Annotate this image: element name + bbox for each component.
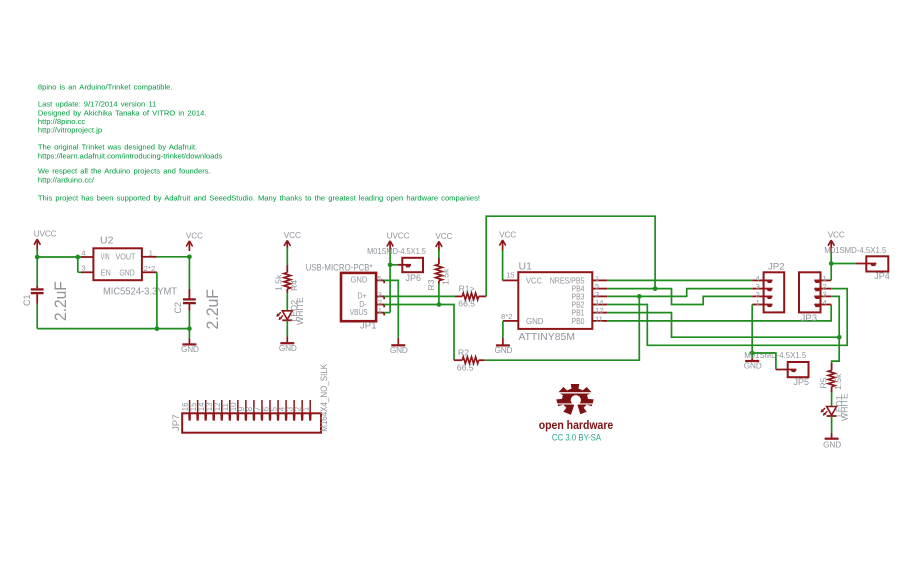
node PB4 junction (653, 286, 658, 291)
M01SMD-4.5X1.5 label (JP5) (744, 350, 806, 360)
VCC symbol above R4 (284, 231, 301, 249)
wire VCC to U1 pin 15 (502, 250, 504, 280)
svg-text:UVCC: UVCC (34, 230, 57, 239)
connector JP4 body (866, 256, 888, 271)
connector JP6 body (402, 258, 423, 272)
U2 pin name VOUT (116, 253, 136, 262)
U1 pin name PB3 (572, 291, 585, 301)
U1 pin name PB4 (572, 284, 585, 294)
svg-text:Last update: 9/17/2014 version: Last update: 9/17/2014 version 11 (38, 100, 156, 109)
svg-text:U1: U1 (519, 260, 533, 272)
wire PB0 to JP3 pin 4 (607, 305, 831, 321)
C2 label (173, 302, 183, 314)
node U2 GND rail junction (155, 326, 160, 331)
svg-text:R2: R2 (458, 347, 469, 357)
wire VCC to R3 (438, 250, 440, 265)
svg-text:GND: GND (181, 345, 199, 354)
svg-text:C1: C1 (22, 294, 32, 306)
capacitor C2 wire top (188, 257, 190, 299)
R3 value 1.5k (441, 268, 451, 285)
U2 pin 2 stub (142, 264, 157, 273)
svg-text:VCC: VCC (284, 231, 301, 240)
wire JP6 to UVCC (390, 264, 398, 266)
JP4 label (874, 271, 890, 281)
svg-text:2*2: 2*2 (144, 264, 155, 273)
U1 pin 8*2 stub (501, 312, 518, 321)
capacitor C1 (31, 289, 44, 293)
svg-text:open hardware: open hardware (539, 420, 614, 432)
svg-text:M164X4_NO_SILK: M164X4_NO_SILK (318, 363, 329, 432)
svg-text:2.2uF: 2.2uF (204, 289, 222, 330)
svg-text:GND: GND (279, 344, 297, 353)
R2 label (458, 347, 469, 357)
JP2 pins 4/3/2/1 (752, 274, 772, 307)
connector JP3 body (799, 272, 821, 312)
svg-text:JP7: JP7 (171, 414, 182, 431)
svg-text:8*2: 8*2 (501, 312, 512, 321)
R2 value 66.5 (457, 363, 474, 373)
svg-text:JP3: JP3 (801, 313, 818, 324)
ground under JP1 (390, 338, 408, 355)
wire PB3 to JP2 pin 3 (607, 289, 752, 297)
wire VCC node down (188, 255, 190, 257)
svg-text:http://8pino.cc: http://8pino.cc (38, 117, 85, 126)
node GND/JP5 junction (750, 351, 755, 356)
wire VCC down to JP3 pin 1 (830, 252, 832, 281)
ground at JP2 pin1 (744, 361, 762, 371)
JP7 label (171, 414, 182, 431)
svg-text:WHITE: WHITE (839, 393, 849, 421)
resistor R4 (284, 273, 291, 289)
svg-text:1: 1 (756, 298, 760, 307)
svg-text:This project has been supporte: This project has been supported by Adafr… (38, 193, 480, 202)
JP2 label (768, 262, 785, 273)
svg-text:GND: GND (526, 316, 543, 326)
wire U1 GND down (502, 321, 504, 338)
C1 value 2.2uF (52, 281, 70, 321)
wire VCC to R4 (286, 248, 288, 273)
svg-text:4: 4 (81, 248, 85, 257)
U1 pin 15 stub (503, 271, 519, 281)
wire PB1 node down to R5 (832, 337, 840, 363)
svg-text:VOUT: VOUT (116, 253, 136, 262)
wire JP1 GND (384, 280, 398, 337)
JP1 pin name GND (351, 275, 368, 285)
JP4 pin (856, 264, 876, 267)
R4 label (289, 280, 299, 291)
svg-text:GND: GND (823, 441, 841, 450)
JP3 label (801, 313, 818, 324)
resistor R2 leads (454, 359, 485, 361)
node PB3 junction (637, 294, 642, 299)
svg-text:WHITE: WHITE (295, 297, 305, 325)
svg-text:JP5: JP5 (794, 377, 810, 387)
svg-text:GND: GND (390, 346, 408, 355)
U1 pin name PB2 (572, 300, 585, 310)
svg-text:We respect all the Arduino pro: We respect all the Arduino projects and … (38, 167, 211, 176)
svg-text:VCC: VCC (526, 275, 542, 285)
svg-text:66.5: 66.5 (457, 363, 474, 373)
svg-text:VIN: VIN (101, 253, 110, 262)
LED1 (821, 407, 837, 417)
U1 pin name VCC (526, 275, 542, 285)
U2 value MIC5524-3.3YMT (103, 286, 178, 298)
CC 3.0 BY-SA text (552, 432, 601, 442)
wire R2 to PB3 (485, 296, 640, 360)
wire JP5 branch (752, 353, 776, 370)
open hardware logo gear (554, 384, 596, 416)
svg-text:VBUS: VBUS (350, 307, 368, 317)
R4 value 1.5k (273, 274, 283, 291)
R5 value 1.5k (833, 373, 843, 390)
svg-text:3: 3 (81, 264, 85, 273)
resistor R2 (462, 357, 478, 364)
C1 label (22, 294, 32, 306)
resistor R5 (828, 370, 835, 386)
wire to JP4 (831, 263, 856, 265)
svg-text:https://learn.adafruit.com/int: https://learn.adafruit.com/introducing-t… (38, 151, 223, 160)
wire R3 to D- line (438, 281, 440, 305)
svg-text:R1>: R1> (459, 284, 475, 294)
wire into R5 (831, 363, 833, 371)
svg-text:4: 4 (823, 298, 827, 307)
svg-text:1.5k: 1.5k (441, 268, 451, 285)
info text block (38, 83, 480, 203)
svg-text:JP2: JP2 (768, 262, 785, 273)
wire C2 to ground (188, 329, 190, 339)
svg-text:1: 1 (302, 407, 311, 411)
connector JP5 body (788, 362, 809, 377)
USB-MICRO-PCB* label (306, 263, 373, 274)
LED1 label (834, 395, 844, 417)
capacitor C1 wire bottom (36, 293, 38, 328)
wire D+ to R1 (384, 295, 455, 297)
svg-text:U2: U2 (100, 235, 114, 247)
VCC symbol above JP4 net (828, 231, 845, 253)
JP5 pin (776, 370, 797, 373)
wire LED2 to ground (286, 320, 288, 336)
wire R5 to LED1 (831, 387, 833, 407)
JP1 pin name D+ (357, 291, 366, 301)
LED2 label (289, 300, 299, 322)
ground under LED2 (279, 336, 297, 353)
svg-text:5: 5 (378, 274, 382, 283)
U2 pin 1 stub (142, 248, 157, 257)
U1 label (519, 260, 533, 272)
wire EN branch right (78, 271, 81, 273)
wire EN branch down (77, 257, 79, 272)
U1 right pin stubs 1/5/2/14/12/11 (592, 274, 607, 324)
JP7 pins 16..1 (181, 400, 312, 421)
JP1 pin name VBUS (350, 307, 368, 317)
svg-text:66.5: 66.5 (458, 299, 475, 309)
svg-text:GND: GND (119, 269, 134, 278)
wire U2 GND riser (156, 272, 158, 328)
JP1 label (360, 321, 377, 332)
svg-text:M01SMD-4.5X1.5: M01SMD-4.5X1.5 (824, 245, 886, 255)
UVCC symbol (USB) (387, 231, 410, 251)
R5 label (818, 377, 828, 388)
JP6 label (406, 273, 422, 283)
VCC symbol above R3 (435, 232, 452, 251)
svg-text:2.2uF: 2.2uF (52, 281, 70, 321)
svg-text:JP4: JP4 (874, 271, 890, 281)
JP5 label (794, 377, 810, 387)
wire UVCC rail to U2 VIN (37, 256, 81, 258)
LED2 value WHITE (295, 297, 305, 325)
svg-text:15: 15 (506, 271, 514, 280)
LED2 (277, 311, 293, 321)
svg-text:CC 3.0 BY-SA: CC 3.0 BY-SA (552, 432, 601, 442)
U1 pin name GND (526, 316, 543, 326)
ground under U1 (494, 338, 512, 355)
wire NRES/PB5 to JP2 pin 4 (607, 279, 752, 281)
svg-text:1: 1 (378, 306, 382, 315)
regulator U2 body (93, 248, 141, 280)
wire R1 up and over to PB4 (486, 216, 655, 296)
node UVCC junction at C1 (35, 255, 40, 260)
capacitor C2 wire bottom (188, 303, 190, 328)
U1 pin name PB0 (572, 316, 585, 326)
svg-text:11: 11 (595, 314, 603, 323)
svg-text:UVCC: UVCC (387, 231, 410, 240)
svg-text:GND: GND (351, 275, 368, 285)
node EN branch junction (75, 255, 80, 260)
ground under C2 (181, 338, 199, 354)
svg-text:Designed by Akichika Tanaka of: Designed by Akichika Tanaka of VITRO in … (38, 108, 207, 117)
svg-text:http://arduino.cc/: http://arduino.cc/ (38, 175, 95, 184)
U1 value ATTINY85M (519, 331, 576, 343)
connector JP2 body (764, 272, 785, 312)
U2 pin name VIN (101, 253, 110, 262)
wire UVCC to node (36, 250, 38, 258)
wire D- line (384, 305, 454, 361)
U2 pin name EN (101, 269, 111, 278)
wire PB4 to JP2 pin 2 (607, 289, 752, 305)
JP3 pins 1/2/3/4 (814, 274, 831, 307)
VCC symbol above C2 (186, 231, 203, 251)
wire to ground (751, 353, 753, 361)
connector JP7 body (182, 413, 321, 432)
U1 pin name NRES/PB5 (550, 275, 585, 285)
ground under LED1 (823, 433, 841, 450)
ground rail wire (37, 328, 189, 330)
svg-text:JP1: JP1 (360, 321, 377, 332)
svg-text:R5: R5 (818, 377, 828, 388)
svg-text:JP6: JP6 (406, 273, 422, 283)
U2 pin 4 stub (81, 248, 93, 257)
M01SMD-4.5X1.5 label (JP6) (367, 246, 426, 256)
svg-text:R3: R3 (426, 279, 436, 290)
svg-text:VCC: VCC (828, 231, 845, 240)
svg-text:ATTINY85M: ATTINY85M (519, 331, 576, 343)
svg-text:1: 1 (149, 248, 153, 257)
JP1 pin name D- (359, 299, 367, 309)
node R3/D- junction (437, 302, 442, 307)
capacitor C2 (183, 299, 196, 303)
U2 label (100, 235, 114, 247)
connector JP1 body (341, 273, 376, 321)
ic U1 body (518, 272, 592, 329)
node UVCC/JP6 junction (388, 262, 393, 267)
VCC symbol above U1 (499, 231, 516, 252)
node VCC/JP4 junction (829, 261, 834, 266)
svg-text:VCC: VCC (435, 232, 452, 241)
resistor R1 leads (455, 295, 486, 297)
svg-text:MIC5524-3.3YMT: MIC5524-3.3YMT (103, 286, 178, 298)
JP6 pin (398, 265, 411, 268)
resistor R1 (462, 293, 478, 300)
R3 label (426, 279, 436, 290)
JP7 value M164X4_NO_SILK (318, 363, 329, 432)
svg-text:M01SMD-4.5X1.5: M01SMD-4.5X1.5 (367, 246, 426, 256)
svg-text:C2: C2 (173, 302, 183, 314)
R1 label (459, 284, 475, 294)
svg-text:The original Trinket was desig: The original Trinket was designed by Ada… (38, 143, 197, 152)
svg-text:1.5k: 1.5k (833, 373, 843, 390)
wire PB1 to junction (607, 313, 839, 338)
svg-text:PB0: PB0 (572, 316, 585, 326)
LED1 value WHITE (839, 393, 849, 421)
M01SMD-4.5X1.5 label (JP4) (824, 245, 886, 255)
svg-text:GND: GND (744, 362, 762, 371)
wire LED1 to ground (831, 416, 833, 433)
node GND/C2 junction (187, 326, 192, 331)
wire JP3 pin3 to PB1 node (831, 296, 839, 337)
svg-text:EN: EN (101, 269, 111, 278)
capacitor C1 wire top (36, 257, 38, 288)
svg-text:8pino is an Arduino/Trinket co: 8pino is an Arduino/Trinket compatible. (38, 83, 173, 92)
wire PB2 to JP3 pin 2 (607, 289, 847, 346)
svg-text:VCC: VCC (186, 231, 203, 240)
wire U2 VOUT to VCC node (157, 256, 190, 258)
node PB1/LED junction (837, 335, 842, 340)
U2 pin 3 stub (81, 264, 93, 273)
C2 value 2.2uF (204, 289, 222, 330)
svg-text:VCC: VCC (499, 231, 516, 240)
svg-text:1.5k: 1.5k (273, 274, 283, 291)
svg-text:http://vitroproject.jp: http://vitroproject.jp (38, 126, 102, 135)
wire R4 to LED2 (286, 289, 288, 311)
U2 pin name GND (119, 269, 134, 278)
open hardware logo text (539, 420, 614, 432)
UVCC power symbol (left) (34, 230, 57, 251)
wire UVCC down to VBUS (384, 250, 390, 313)
wire JP2 pin1 to GND node (751, 305, 753, 354)
R1 value 66.5 (458, 299, 475, 309)
resistor R3 (436, 264, 443, 280)
svg-text:R4: R4 (289, 280, 299, 291)
U1 pin name PB1 (572, 308, 585, 318)
node VCC/C2 junction (187, 254, 192, 259)
svg-text:GND: GND (494, 346, 512, 355)
JP1 pins 5/3/2/1 (376, 274, 384, 316)
